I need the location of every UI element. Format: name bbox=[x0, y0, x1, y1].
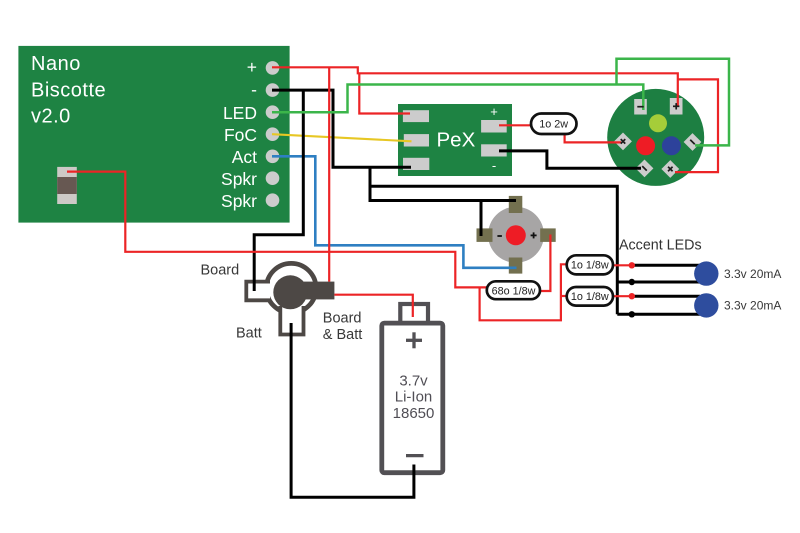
svg-text:1o 1/8w: 1o 1/8w bbox=[571, 260, 609, 272]
svg-text:Batt: Batt bbox=[236, 326, 262, 342]
svg-text:Spkr: Spkr bbox=[221, 191, 257, 211]
svg-text:-: - bbox=[251, 79, 257, 99]
svg-text:Act: Act bbox=[232, 147, 257, 167]
svg-text:3.7v: 3.7v bbox=[399, 373, 428, 390]
svg-text:Spkr: Spkr bbox=[221, 169, 257, 189]
svg-text:Biscotte: Biscotte bbox=[31, 79, 106, 101]
svg-text:3.3v 20mA: 3.3v 20mA bbox=[724, 267, 781, 281]
svg-text:Board: Board bbox=[323, 311, 362, 327]
svg-text:Board: Board bbox=[201, 263, 240, 279]
svg-text:PeX: PeX bbox=[437, 129, 476, 152]
svg-text:v2.0: v2.0 bbox=[31, 106, 71, 128]
svg-text:+: + bbox=[490, 104, 498, 119]
svg-text:& Batt: & Batt bbox=[323, 327, 363, 343]
svg-text:FoC: FoC bbox=[224, 125, 257, 145]
svg-text:Nano: Nano bbox=[31, 53, 81, 75]
svg-text:1o 1/8w: 1o 1/8w bbox=[571, 291, 609, 303]
svg-text:18650: 18650 bbox=[393, 405, 435, 422]
svg-text:1o 2w: 1o 2w bbox=[539, 119, 568, 131]
svg-text:LED: LED bbox=[223, 103, 257, 123]
svg-text:+: + bbox=[247, 57, 257, 77]
svg-text:-: - bbox=[492, 158, 496, 173]
svg-text:68o 1/8w: 68o 1/8w bbox=[492, 286, 536, 298]
svg-text:Li-Ion: Li-Ion bbox=[395, 389, 433, 406]
svg-text:3.3v 20mA: 3.3v 20mA bbox=[724, 299, 781, 313]
svg-text:Accent LEDs: Accent LEDs bbox=[619, 237, 702, 253]
